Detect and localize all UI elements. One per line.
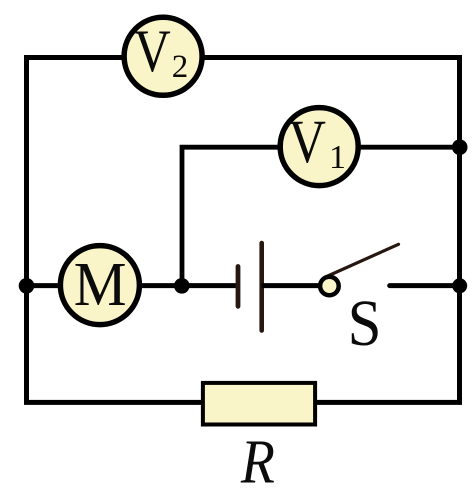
svg-text:1: 1 (329, 139, 346, 176)
wire branch from node to V1 and right wire (182, 147, 460, 286)
wire switch to right wire (390, 283, 460, 288)
svg-text:S: S (348, 287, 382, 359)
label V1 letter V (288, 108, 326, 176)
wire battery to switch (262, 283, 322, 288)
battery BT1 long plate (259, 243, 264, 331)
svg-text:V: V (134, 18, 171, 85)
node left junction (19, 278, 35, 294)
resistor R body (203, 383, 315, 425)
svg-text:M: M (74, 251, 127, 319)
battery BT1 short plate (236, 267, 241, 307)
node branch junction (174, 278, 190, 294)
svg-text:R: R (240, 426, 275, 496)
label V2 letter V (134, 18, 171, 85)
motor M (60, 246, 139, 325)
voltmeter V2 (124, 17, 202, 95)
label S (348, 287, 382, 359)
svg-text:V: V (288, 108, 326, 176)
node right mid junction (452, 278, 467, 293)
switch S lever (326, 244, 399, 277)
switch S pivot (320, 277, 339, 296)
svg-text:2: 2 (172, 49, 189, 85)
wire outer loop (27, 58, 460, 403)
voltmeter V1 (280, 108, 358, 186)
label M (74, 251, 127, 319)
wire middle left segment (27, 283, 239, 288)
node right upper junction (452, 139, 468, 155)
label R (240, 426, 275, 496)
